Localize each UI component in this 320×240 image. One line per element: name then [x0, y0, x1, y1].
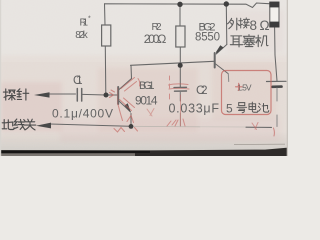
svg-text:*: * — [88, 16, 91, 23]
svg-text:8: 8 — [250, 18, 258, 33]
svg-text:5: 5 — [226, 102, 233, 116]
svg-text:0.033μF: 0.033μF — [169, 102, 220, 116]
svg-text:0.1μ/400V: 0.1μ/400V — [52, 107, 113, 121]
svg-text:BG1: BG1 — [139, 80, 155, 92]
svg-text:9014: 9014 — [135, 94, 158, 108]
svg-text:C2: C2 — [196, 83, 208, 97]
svg-text:200Ω: 200Ω — [144, 32, 167, 46]
svg-text:82k: 82k — [75, 30, 89, 41]
svg-text:Ω: Ω — [260, 18, 270, 33]
svg-text:C1: C1 — [73, 75, 83, 87]
svg-text:8550: 8550 — [195, 32, 220, 44]
